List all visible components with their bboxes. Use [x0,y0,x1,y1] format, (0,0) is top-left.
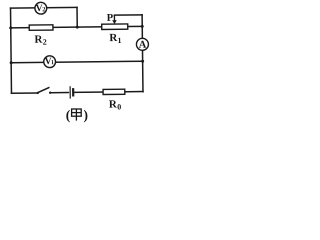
resistor R0 [103,89,125,112]
svg-text:P: P [107,13,114,24]
node junction V2 leg [76,26,79,29]
wire V1 branch [11,61,142,62]
wire V2 top branch [11,6,77,9]
wire slider top [114,14,142,16]
wire battery-to-right segment [74,91,143,94]
node junction left-top [9,26,12,29]
svg-text:1: 1 [51,60,54,66]
wire V2 right leg [76,7,78,27]
slider P arrow [112,15,117,24]
svg-text:A: A [139,40,147,51]
wire switch-to-battery segment [50,92,68,94]
voltmeter V2 [35,2,47,14]
svg-text:1: 1 [117,36,121,45]
label (甲) caption [66,108,88,123]
svg-text:2: 2 [43,38,47,47]
svg-text:(: ( [66,108,71,123]
svg-text:0: 0 [117,103,121,112]
switch S [37,88,52,95]
resistor R2 [29,25,53,47]
node junction V1 right [141,60,144,63]
wire main top [11,26,142,27]
wire bottom left segment [11,92,36,94]
wire left vertical [10,8,13,93]
ammeter A [136,38,148,50]
svg-text:2: 2 [42,6,45,13]
voltmeter V1 [44,56,56,68]
rheostat R1 [102,24,128,45]
battery cell [70,87,73,98]
svg-text:): ) [83,108,88,123]
node junction rheostat-right [141,25,144,28]
wire right vertical [141,15,144,92]
node junction V1 left [10,61,13,64]
